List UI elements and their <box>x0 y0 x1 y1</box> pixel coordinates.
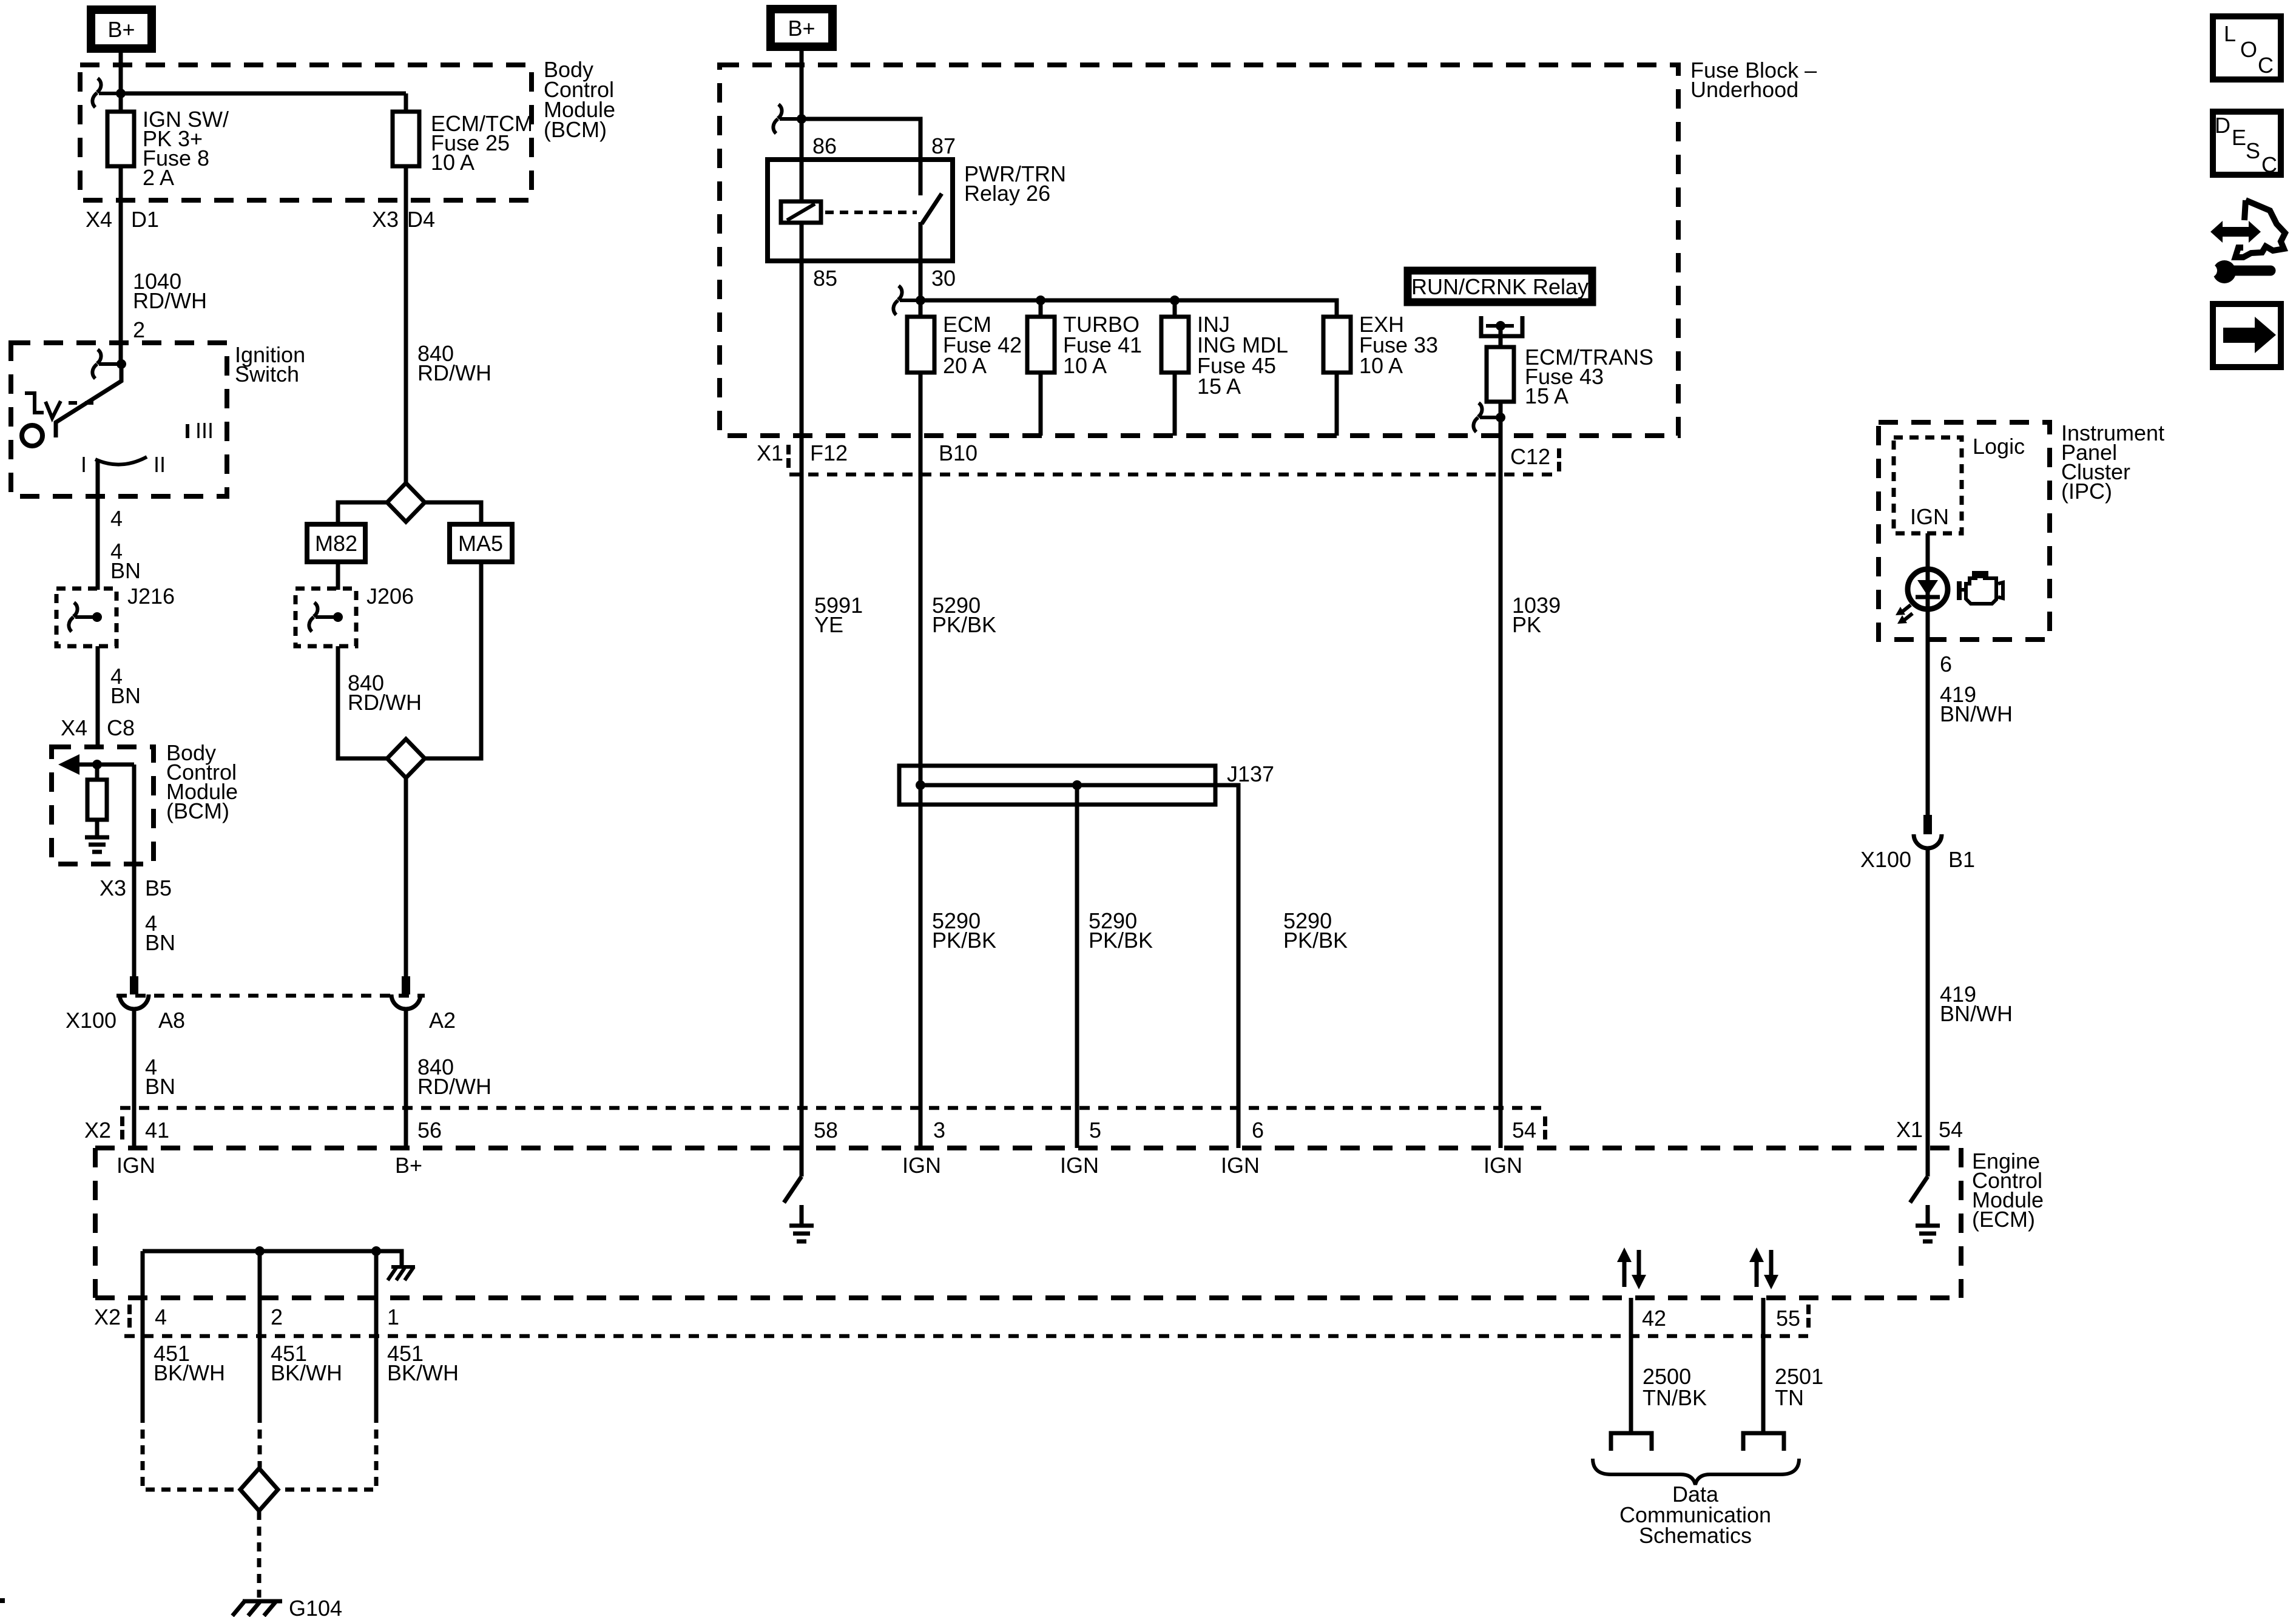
ignition switch contact break symbol <box>92 349 119 379</box>
svg-text:Switch: Switch <box>235 362 299 387</box>
wire B+ into fuse block <box>800 51 804 160</box>
svg-text:D1: D1 <box>131 207 159 232</box>
splice diamond upper <box>387 483 425 522</box>
svg-text:TN/BK: TN/BK <box>1643 1385 1707 1410</box>
wire label 451 BK/WH pin 4 <box>154 1341 225 1385</box>
svg-text:C8: C8 <box>107 715 135 740</box>
svg-text:1: 1 <box>387 1305 399 1329</box>
svg-text:A2: A2 <box>429 1008 456 1033</box>
Ignition Switch dashed box <box>11 342 305 496</box>
connector MA5 box <box>450 524 512 562</box>
ignition key symbol <box>25 391 61 418</box>
node J206 junction <box>333 612 343 622</box>
svg-text:J216: J216 <box>127 584 175 609</box>
node ground bus tap 1 <box>371 1246 381 1256</box>
svg-text:TN: TN <box>1775 1385 1804 1410</box>
ground G104 chassis symbol <box>232 1596 342 1617</box>
svg-text:BN/WH: BN/WH <box>1940 701 2013 726</box>
ECM connector dashed row top <box>120 1106 1545 1110</box>
pin label X1 54 <box>1896 1117 1963 1142</box>
wire ignition switch output <box>96 461 100 590</box>
ECM internal ground bus <box>143 1251 402 1266</box>
svg-text:15 A: 15 A <box>1197 374 1241 399</box>
svg-text:MA5: MA5 <box>458 531 503 556</box>
svg-text:S: S <box>2246 138 2260 163</box>
svg-text:(ECM): (ECM) <box>1972 1207 2035 1232</box>
svg-text:Relay 26: Relay 26 <box>964 181 1050 206</box>
wire label 1040 RD/WH <box>133 269 207 313</box>
dashed wire pin 1 to splice <box>278 1414 376 1490</box>
svg-text:86: 86 <box>812 133 837 158</box>
wire diamond to X100 A2 <box>404 778 408 979</box>
svg-text:C: C <box>2258 53 2274 78</box>
svg-text:X4: X4 <box>61 715 87 740</box>
splice pack J137 box <box>899 761 1274 805</box>
node junction under B+ <box>116 89 126 98</box>
splice diamond G104 <box>240 1468 278 1511</box>
svg-text:PK: PK <box>1512 612 1541 637</box>
Instrument Panel Cluster dashed box <box>1879 420 2164 640</box>
ignition switch terminal circle <box>22 425 42 446</box>
node relay terminal junction <box>1496 321 1505 331</box>
svg-text:Schematics: Schematics <box>1639 1523 1752 1548</box>
svg-text:Underhood: Underhood <box>1690 77 1798 102</box>
svg-text:X4: X4 <box>86 207 112 232</box>
svg-text:B1: B1 <box>1948 847 1975 872</box>
svg-text:PK/BK: PK/BK <box>1283 928 1348 953</box>
svg-text:15 A: 15 A <box>1525 383 1568 408</box>
wire label 840 RD/WH <box>417 1055 491 1099</box>
svg-text:B+: B+ <box>788 16 815 41</box>
svg-text:X3: X3 <box>100 876 126 900</box>
svg-text:(IPC): (IPC) <box>2061 479 2112 504</box>
wire logic to LED <box>1926 533 1930 816</box>
off-page terminal pin 55 <box>1743 1433 1784 1451</box>
svg-text:IGN: IGN <box>1484 1153 1522 1178</box>
svg-text:85: 85 <box>813 266 837 291</box>
svg-text:II: II <box>154 452 166 477</box>
relay linkage dashes <box>825 211 917 214</box>
wire label 5290 PK/BK <box>932 593 996 637</box>
ECM internal switch at pin 58 <box>784 1148 802 1203</box>
wire fuse 8 to ignition switch <box>119 166 123 364</box>
label Data Communication Schematics <box>1619 1482 1771 1548</box>
indicator LED circle <box>1908 569 1948 609</box>
wire label 840 RD/WH <box>417 341 491 385</box>
wire label 4 BN <box>145 911 175 955</box>
svg-text:J206: J206 <box>366 584 414 609</box>
J137 internal bus <box>920 785 1238 1148</box>
in-line connector B1 terminal <box>1914 815 1942 848</box>
wire fuse 33 stub <box>1335 373 1339 436</box>
wire MA5 to lower diamond <box>425 562 481 758</box>
wire label 840 RD/WH <box>348 670 422 715</box>
pin label X3 D4 <box>372 207 435 232</box>
wire B5 to X100 A8 <box>132 865 137 979</box>
fuse IGN SW/PK 3+ Fuse 8 2A <box>107 107 229 190</box>
node bus tap turbo <box>1036 295 1045 305</box>
LED light arrows <box>1896 605 1913 624</box>
svg-text:2: 2 <box>133 317 145 342</box>
wire label 419 BN/WH <box>1940 682 2013 726</box>
dashed wire splice to G104 <box>257 1511 262 1598</box>
B+ power symbol (fuse block feed) <box>771 9 832 47</box>
relay terminal bracket <box>1481 316 1522 336</box>
svg-text:4: 4 <box>155 1305 167 1329</box>
page footer dot <box>0 1598 5 1603</box>
svg-text:D4: D4 <box>407 207 435 232</box>
svg-text:X100: X100 <box>66 1008 116 1033</box>
svg-text:2 A: 2 A <box>143 165 174 190</box>
svg-text:87: 87 <box>931 133 956 158</box>
wire label 4 BN <box>110 539 141 583</box>
svg-text:4: 4 <box>110 506 123 531</box>
node J137 tap 2 <box>1072 780 1082 790</box>
splice diamond lower <box>387 739 425 778</box>
svg-text:BN: BN <box>110 558 141 583</box>
label X100 B1 <box>1860 847 1975 872</box>
wire label 451 BK/WH pin 1 <box>387 1341 459 1385</box>
net name labels inside ECM <box>116 1153 1522 1178</box>
pin number labels ECM top row <box>145 1118 1536 1143</box>
svg-text:X100: X100 <box>1860 847 1911 872</box>
connector colon after 54 <box>1543 1116 1547 1139</box>
node bus junction at 30 <box>916 295 925 305</box>
node ground bus tap 2 <box>255 1246 265 1256</box>
Body Control Module (BCM) dashed box lower <box>52 740 238 864</box>
wire ECM pin 42 <box>1629 1298 1633 1432</box>
relay switch contact <box>920 160 942 261</box>
wire label 451 BK/WH pin 2 <box>271 1341 342 1385</box>
in-line connector A8 terminal <box>120 976 149 1009</box>
chassis ground inside ECM <box>388 1267 415 1280</box>
svg-text:RD/WH: RD/WH <box>417 1074 491 1099</box>
wire fuse 45 stub <box>1173 373 1177 436</box>
svg-text:PK/BK: PK/BK <box>932 928 996 953</box>
svg-text:56: 56 <box>417 1118 442 1143</box>
wire junction to ECM/TCM fuse branch <box>121 92 406 96</box>
wire fuse 42 down (B10 column) <box>919 373 923 1148</box>
wire A8 to ECM pin 41 <box>132 1009 137 1148</box>
splice J216 dashed box <box>56 584 175 646</box>
wire ECM pin 2 <box>258 1251 262 1414</box>
wire junction to relay 87 <box>802 119 920 160</box>
svg-text:BN: BN <box>145 1074 175 1099</box>
svg-text:X1: X1 <box>757 441 783 465</box>
svg-text:RD/WH: RD/WH <box>133 288 207 313</box>
wire diamond to MA5 <box>425 502 481 524</box>
pin labels 85 30 <box>813 266 956 291</box>
svg-text:X2: X2 <box>84 1118 111 1143</box>
connector row X100 dashed line <box>116 994 425 998</box>
svg-text:A8: A8 <box>158 1008 185 1033</box>
svg-text:3: 3 <box>933 1118 945 1143</box>
svg-text:6: 6 <box>1252 1118 1264 1143</box>
svg-text:IGN: IGN <box>1221 1153 1260 1178</box>
svg-text:BK/WH: BK/WH <box>387 1360 459 1385</box>
svg-text:O: O <box>2240 37 2257 62</box>
pin label X4 C8 <box>61 715 135 740</box>
dashed wire pin 4 to splice <box>143 1414 240 1490</box>
svg-text:10 A: 10 A <box>1063 353 1107 378</box>
svg-text:L: L <box>2224 21 2236 46</box>
node J137 tap 1 <box>916 780 925 790</box>
connector C12 label <box>1510 444 1561 471</box>
wire BCM branch to X3 B5 <box>132 765 137 865</box>
svg-text:C: C <box>2261 152 2277 177</box>
Logic dashed box inside IPC <box>1894 434 2025 533</box>
pin label X4 D1 <box>86 207 159 232</box>
svg-text:2: 2 <box>271 1305 283 1329</box>
svg-text:42: 42 <box>1642 1306 1666 1331</box>
check engine icon <box>1957 571 2003 604</box>
wire A2 to ECM pin 56 <box>404 1009 408 1148</box>
svg-text:RD/WH: RD/WH <box>417 360 491 385</box>
svg-text:10 A: 10 A <box>1359 353 1403 378</box>
wire diamond to M82 <box>338 502 387 524</box>
resistor inside BCM <box>87 765 107 836</box>
break symbol below fuse 43 <box>1473 403 1499 432</box>
wire label 1039 PK <box>1512 593 1561 637</box>
icon LOC box <box>2213 16 2281 79</box>
svg-text:20 A: 20 A <box>943 353 987 378</box>
svg-text:PK/BK: PK/BK <box>1089 928 1153 953</box>
connector row X1 labels under fuse block <box>757 441 977 468</box>
fuse bus wire <box>920 300 1337 317</box>
B+ power symbol (left battery feed) <box>91 10 152 49</box>
break symbol at relay 86 junction <box>773 104 800 133</box>
fuse ECM/TCM Fuse 25 10A <box>393 111 533 175</box>
ECM internal switch at X1 54 <box>1910 1148 1928 1203</box>
wire label 5290 PK/BK <box>1089 908 1153 953</box>
svg-text:X2: X2 <box>94 1305 121 1329</box>
label X100 A8 <box>66 1008 185 1033</box>
node ignition switch feed junction <box>116 359 126 369</box>
fuse ECM Fuse 42 20A <box>907 300 1022 378</box>
node below fuse 43 <box>1496 413 1505 422</box>
fuse ECM/TRANS Fuse 43 15A <box>1487 345 1653 408</box>
wire J216 to BCM <box>96 646 100 748</box>
svg-text:X3: X3 <box>372 207 399 232</box>
wire label 5290 PK/BK <box>932 908 996 953</box>
svg-text:B5: B5 <box>145 876 172 900</box>
icon forward arrow box <box>2213 304 2281 367</box>
ECM bottom connector dashed row <box>124 1334 1808 1338</box>
pin labels 86 87 <box>812 133 956 158</box>
svg-text:D: D <box>2215 113 2230 138</box>
svg-text:54: 54 <box>1512 1118 1536 1143</box>
ground symbol at pin 58 <box>789 1205 814 1241</box>
svg-text:BK/WH: BK/WH <box>154 1360 225 1385</box>
Fuse Block Underhood dashed box <box>720 58 1817 436</box>
node relay feed junction <box>797 114 806 124</box>
data link arrows at pin 55 <box>1749 1247 1778 1289</box>
wire M82 to J206 <box>336 562 340 590</box>
wire label 2500 TN/BK <box>1643 1364 1707 1410</box>
icon DESC box <box>2213 112 2281 177</box>
icon vehicle with arrow and wrench <box>2204 200 2285 283</box>
wire J206 to lower diamond <box>338 646 387 758</box>
wire terminal to fuse 43 <box>1499 326 1503 347</box>
svg-text:RD/WH: RD/WH <box>348 690 422 715</box>
brace for data communication <box>1593 1459 1799 1485</box>
svg-text:C12: C12 <box>1510 444 1550 469</box>
svg-text:(BCM): (BCM) <box>166 798 229 823</box>
break symbol in J206 <box>309 603 336 632</box>
wire fuse 43 to ECM pin 54 (C12 column) <box>1499 402 1503 1148</box>
svg-text:I: I <box>81 452 87 477</box>
svg-text:BN: BN <box>145 930 175 955</box>
wire label 419 BN/WH <box>1940 982 2013 1026</box>
RUN/CRNK Relay callout box <box>1408 271 1592 302</box>
svg-text:55: 55 <box>1776 1306 1800 1331</box>
wire label 2501 TN <box>1775 1364 1823 1410</box>
svg-text:54: 54 <box>1939 1117 1963 1142</box>
svg-text:(BCM): (BCM) <box>544 117 607 142</box>
connector colon after 55 <box>1806 1305 1811 1328</box>
svg-text:E: E <box>2232 125 2246 150</box>
svg-text:BN: BN <box>110 683 141 708</box>
wire B+ down to Fuse 8 <box>119 53 123 112</box>
ignition switch movable contact wire <box>56 364 121 437</box>
off-page terminal pin 42 <box>1611 1433 1652 1451</box>
svg-text:M82: M82 <box>315 531 357 556</box>
fuse INJ ING MDL Fuse 45 15A <box>1161 300 1288 399</box>
svg-text:J137: J137 <box>1227 761 1274 786</box>
svg-text:30: 30 <box>931 266 956 291</box>
wire fuse 25 branch down <box>404 93 408 112</box>
wire label 5290 PK/BK <box>1283 908 1348 953</box>
svg-text:5: 5 <box>1089 1118 1101 1143</box>
svg-text:RUN/CRNK Relay: RUN/CRNK Relay <box>1411 274 1589 299</box>
svg-text:IGN: IGN <box>902 1153 941 1178</box>
key linkage dashes <box>69 401 93 405</box>
wire J137 to ECM pin 5 <box>1075 785 1079 1148</box>
wire fuse 25 to upper diamond <box>404 166 408 483</box>
fuse block connector dashed row <box>789 473 1558 477</box>
pin label X3 B5 <box>100 876 172 900</box>
fuse EXH Fuse 33 10A <box>1323 312 1438 378</box>
ground symbol inside BCM <box>85 837 109 852</box>
svg-text:IGN: IGN <box>1910 504 1949 529</box>
signal arrow inside BCM <box>58 754 134 775</box>
Engine Control Module dashed box <box>95 1148 2044 1298</box>
svg-text:IGN: IGN <box>116 1153 155 1178</box>
svg-text:58: 58 <box>814 1118 838 1143</box>
svg-text:III: III <box>195 418 214 443</box>
Body Control Module (BCM) dashed box top <box>80 57 615 200</box>
svg-text:X1: X1 <box>1896 1117 1923 1142</box>
pin number labels ECM bottom row <box>155 1305 1800 1331</box>
svg-text:PK/BK: PK/BK <box>932 612 996 637</box>
ground symbol at X1 54 <box>1916 1205 1940 1241</box>
svg-text:B+: B+ <box>395 1153 422 1178</box>
wire ECM pin 1 <box>374 1251 379 1414</box>
break symbol in J216 <box>69 603 95 632</box>
connector M82 box <box>307 524 365 562</box>
dashed wire pin 2 to splice <box>258 1414 262 1468</box>
svg-text:IGN: IGN <box>1060 1153 1099 1178</box>
data link arrows at pin 42 <box>1617 1247 1646 1289</box>
connector colon X2 top <box>84 1116 124 1143</box>
svg-text:F12: F12 <box>810 441 848 465</box>
wire label 4 BN <box>110 664 141 708</box>
svg-text:BK/WH: BK/WH <box>271 1360 342 1385</box>
relay PWR/TRN Relay 26 box <box>768 160 1066 261</box>
wire ECM pin 4 <box>141 1251 145 1414</box>
svg-text:41: 41 <box>145 1118 169 1143</box>
wire label 5991 YE <box>814 593 863 637</box>
svg-text:10 A: 10 A <box>431 150 474 175</box>
break symbol at bus start <box>893 286 918 315</box>
wire fuse 41 stub <box>1039 373 1043 436</box>
wire label 4 BN <box>145 1055 175 1099</box>
node BCM C8 junction <box>92 760 102 769</box>
position labels I II III <box>81 418 214 477</box>
wire B1 to ECM X1 54 <box>1926 848 1930 1148</box>
position arc of ignition switch <box>95 457 147 465</box>
svg-text:Logic: Logic <box>1973 434 2025 459</box>
svg-text:YE: YE <box>814 612 843 637</box>
wire relay 30 down to bus <box>919 261 923 300</box>
svg-text:B+: B+ <box>107 17 135 42</box>
fuse TURBO Fuse 41 10A <box>1027 300 1142 378</box>
current break symbol at B+ junction <box>92 78 119 107</box>
svg-text:G104: G104 <box>289 1596 342 1617</box>
in-line connector A2 terminal <box>391 976 420 1009</box>
node J216 junction <box>92 612 102 622</box>
relay coil <box>781 160 821 261</box>
connector colon X2 bottom <box>94 1305 132 1329</box>
wire relay 85 down (F12 column) <box>800 261 804 1148</box>
wire ECM pin 55 <box>1761 1298 1766 1432</box>
node bus tap inj <box>1170 295 1180 305</box>
svg-text:B10: B10 <box>939 441 977 465</box>
svg-text:BN/WH: BN/WH <box>1940 1001 2013 1026</box>
svg-text:6: 6 <box>1940 652 1952 677</box>
splice J206 dashed box <box>295 584 414 646</box>
